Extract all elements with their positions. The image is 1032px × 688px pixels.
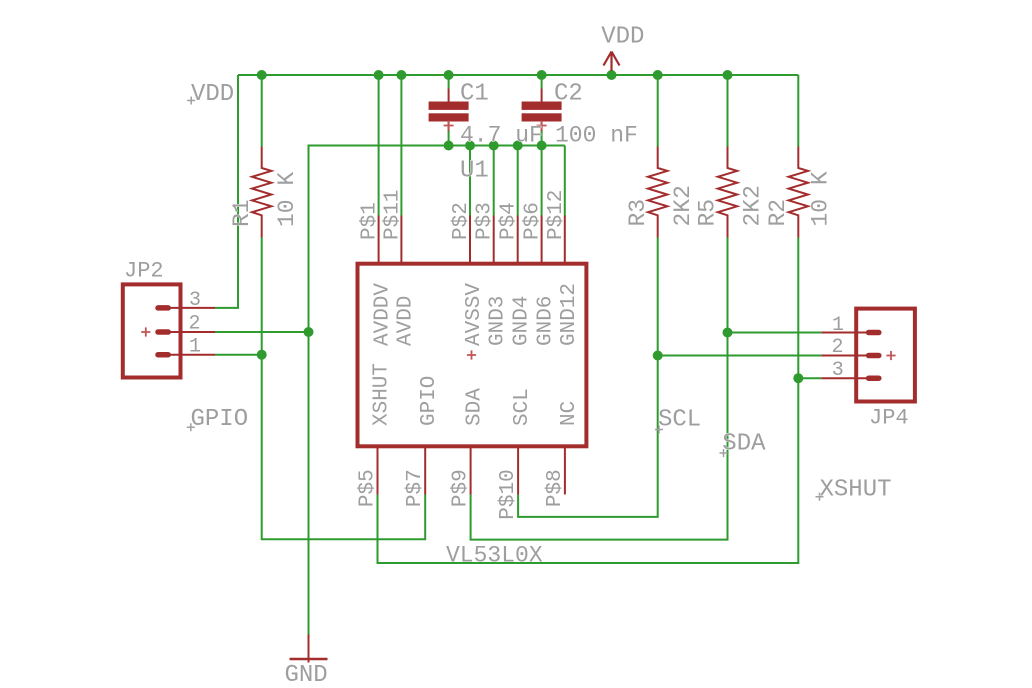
svg-text:GND6: GND6 [535, 296, 558, 346]
svg-text:NC: NC [558, 401, 581, 426]
svg-text:GND4: GND4 [511, 296, 534, 346]
svg-text:GND12: GND12 [558, 283, 581, 346]
svg-text:JP4: JP4 [869, 406, 909, 431]
svg-text:3: 3 [832, 359, 844, 382]
svg-text:1: 1 [189, 336, 201, 359]
svg-text:P$3: P$3 [474, 202, 497, 240]
svg-text:AVDD: AVDD [394, 296, 417, 346]
svg-text:P$10: P$10 [497, 469, 520, 519]
svg-text:XSHUT: XSHUT [820, 476, 892, 503]
svg-text:2: 2 [189, 313, 201, 336]
svg-text:VDD: VDD [601, 23, 644, 50]
svg-text:VL53L0X: VL53L0X [446, 543, 543, 569]
svg-text:JP2: JP2 [124, 259, 164, 284]
svg-text:P$8: P$8 [544, 469, 567, 507]
svg-text:P$9: P$9 [450, 469, 473, 507]
svg-text:GPIO: GPIO [191, 406, 249, 433]
svg-text:P$4: P$4 [498, 202, 521, 240]
svg-text:P$1: P$1 [359, 202, 382, 240]
svg-text:GPIO: GPIO [418, 376, 441, 426]
svg-text:2K2: 2K2 [670, 185, 696, 226]
svg-text:SCL: SCL [511, 388, 534, 426]
svg-text:P$5: P$5 [357, 469, 380, 507]
svg-text:AVDDV: AVDDV [372, 283, 395, 346]
svg-text:GND: GND [285, 662, 328, 688]
svg-text:R2: R2 [765, 199, 791, 227]
svg-text:XSHUT: XSHUT [371, 363, 394, 426]
svg-text:C2: C2 [554, 80, 583, 107]
svg-text:C1: C1 [460, 80, 489, 107]
svg-text:P$7: P$7 [404, 469, 427, 507]
svg-text:100 nF: 100 nF [555, 123, 638, 149]
svg-text:P$2: P$2 [450, 202, 473, 240]
svg-text:4.7 uF: 4.7 uF [460, 123, 543, 149]
svg-text:AVSSV: AVSSV [463, 283, 486, 346]
svg-text:R5: R5 [695, 199, 721, 227]
svg-text:10 K: 10 K [274, 172, 300, 227]
svg-text:U1: U1 [460, 157, 489, 184]
svg-text:3: 3 [189, 289, 201, 312]
svg-text:R3: R3 [625, 199, 651, 227]
svg-text:1: 1 [832, 314, 844, 337]
svg-text:2K2: 2K2 [740, 185, 766, 226]
svg-text:P$11: P$11 [381, 190, 404, 240]
svg-text:GND3: GND3 [487, 296, 510, 346]
svg-text:P$12: P$12 [545, 190, 568, 240]
svg-text:SDA: SDA [722, 431, 766, 458]
svg-text:VDD: VDD [191, 81, 234, 108]
svg-text:SCL: SCL [658, 407, 701, 434]
svg-text:2: 2 [832, 336, 844, 359]
svg-text:10 K: 10 K [808, 171, 834, 226]
svg-text:SDA: SDA [464, 388, 487, 426]
svg-text:R1: R1 [229, 199, 255, 227]
svg-text:P$6: P$6 [522, 202, 545, 240]
